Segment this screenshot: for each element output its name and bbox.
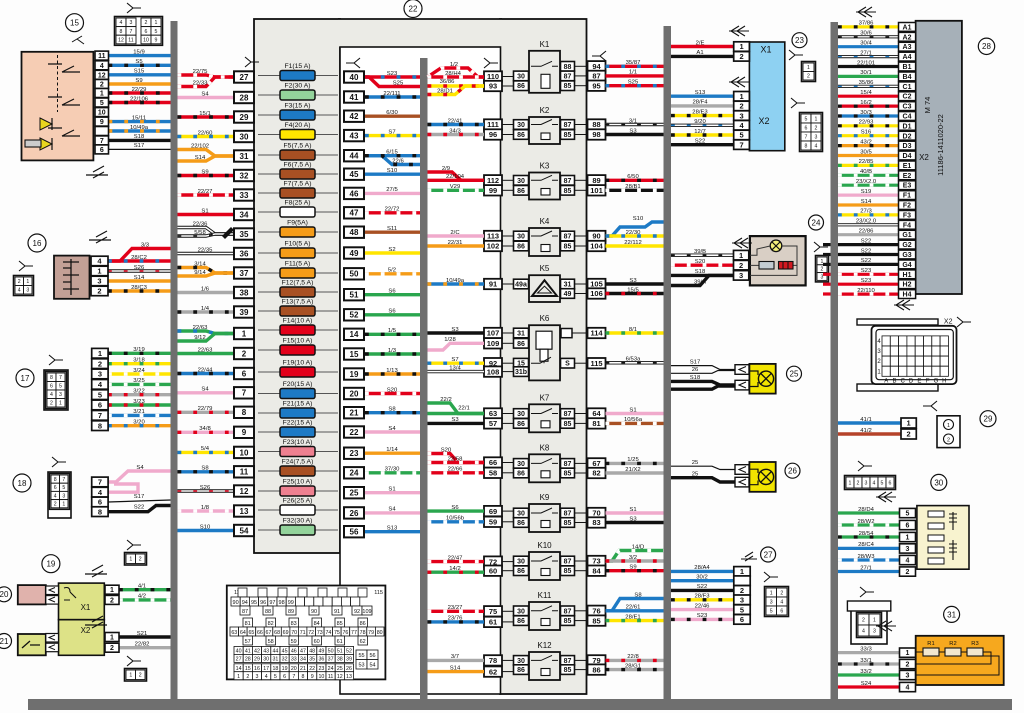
svg-text:69: 69 bbox=[283, 630, 289, 636]
pin 87 of K12 bbox=[561, 656, 575, 666]
wire 22/29 bbox=[109, 91, 171, 94]
svg-text:65: 65 bbox=[248, 630, 254, 636]
pin 86 of K11 bbox=[514, 616, 529, 626]
svg-text:22/110: 22/110 bbox=[857, 288, 875, 294]
svg-text:13: 13 bbox=[346, 674, 352, 680]
branch symbol bbox=[957, 317, 971, 327]
svg-text:84: 84 bbox=[592, 566, 601, 575]
wire 22/35 bbox=[178, 252, 235, 255]
svg-text:9: 9 bbox=[100, 119, 104, 126]
pin 2 of item 15 bbox=[95, 80, 109, 89]
svg-text:R2: R2 bbox=[949, 641, 956, 647]
resistor in item 15 bbox=[25, 140, 41, 147]
pin 28 of block 22 bbox=[234, 92, 254, 103]
svg-text:3/25: 3/25 bbox=[133, 378, 145, 384]
svg-text:91: 91 bbox=[489, 280, 497, 289]
svg-text:87: 87 bbox=[564, 658, 572, 665]
svg-text:104: 104 bbox=[590, 242, 603, 251]
svg-text:90: 90 bbox=[233, 600, 239, 606]
svg-text:15: 15 bbox=[245, 666, 251, 672]
pin 6 of item 17 bbox=[92, 400, 108, 410]
svg-text:H: H bbox=[942, 378, 946, 384]
fuse F10 bbox=[258, 252, 338, 254]
svg-text:S: S bbox=[565, 361, 570, 368]
svg-text:C4: C4 bbox=[903, 114, 912, 121]
fuse F1 bbox=[258, 75, 338, 77]
pin 3 of item 17 bbox=[92, 369, 108, 379]
svg-text:F20(15 A): F20(15 A) bbox=[283, 381, 313, 388]
wire 39/B bbox=[671, 253, 734, 256]
svg-text:F1: F1 bbox=[903, 193, 911, 200]
wire 28/A4 bbox=[671, 570, 734, 573]
arrow glyph bbox=[741, 552, 757, 561]
svg-text:70: 70 bbox=[592, 509, 600, 518]
svg-text:3: 3 bbox=[62, 493, 65, 499]
svg-text:7: 7 bbox=[100, 138, 104, 145]
svg-text:X2: X2 bbox=[758, 116, 769, 126]
svg-text:54: 54 bbox=[240, 526, 249, 535]
svg-text:19: 19 bbox=[350, 370, 359, 379]
wire 22/110 bbox=[838, 293, 899, 296]
svg-text:10: 10 bbox=[98, 110, 106, 117]
svg-text:2: 2 bbox=[740, 52, 744, 61]
svg-text:102: 102 bbox=[487, 242, 500, 251]
svg-text:S19: S19 bbox=[861, 189, 871, 195]
fuse F21 bbox=[258, 412, 338, 414]
svg-text:1: 1 bbox=[98, 349, 102, 358]
svg-text:25: 25 bbox=[790, 370, 799, 379]
svg-text:E: E bbox=[917, 378, 921, 384]
arrow contact bbox=[735, 477, 749, 487]
pin 15 of block 22 bbox=[344, 348, 364, 359]
wire S18 bbox=[671, 274, 734, 277]
svg-text:3: 3 bbox=[865, 480, 868, 486]
svg-text:3/14: 3/14 bbox=[194, 261, 206, 267]
svg-text:2: 2 bbox=[857, 480, 860, 486]
svg-text:8: 8 bbox=[805, 143, 808, 149]
svg-text:29: 29 bbox=[984, 415, 993, 424]
wire 9/12 bbox=[178, 334, 235, 342]
svg-text:B1: B1 bbox=[903, 64, 912, 71]
svg-text:3: 3 bbox=[59, 392, 62, 398]
pin 33 of block 22 bbox=[234, 189, 254, 200]
label 19 circled bbox=[42, 555, 60, 573]
diode symbols in item 15 bbox=[40, 118, 52, 130]
wire 28/B1 bbox=[606, 189, 664, 192]
pin D2 of ECU bbox=[899, 131, 916, 140]
svg-text:7: 7 bbox=[805, 134, 808, 140]
wire 25a bbox=[671, 466, 735, 469]
svg-text:30: 30 bbox=[240, 132, 249, 141]
svg-text:94: 94 bbox=[592, 62, 601, 71]
svg-text:D1: D1 bbox=[903, 123, 912, 130]
pin 2 of item 31 bbox=[900, 659, 916, 668]
svg-text:2: 2 bbox=[947, 438, 950, 444]
fuse F20 bbox=[258, 393, 338, 395]
pin 85 of K3 bbox=[561, 186, 575, 196]
svg-text:1: 1 bbox=[740, 42, 744, 51]
wire S14 bbox=[428, 670, 485, 673]
svg-text:9: 9 bbox=[311, 674, 314, 680]
wire S17 bbox=[109, 148, 171, 150]
wire 1/13 bbox=[365, 372, 420, 375]
svg-text:27/1: 27/1 bbox=[860, 565, 871, 571]
pin 3 of item 24 bbox=[734, 271, 749, 281]
svg-text:H2: H2 bbox=[903, 282, 912, 289]
svg-text:24: 24 bbox=[812, 218, 821, 227]
svg-text:K6: K6 bbox=[540, 314, 550, 323]
block pin 87 bbox=[588, 71, 606, 81]
svg-text:22/112: 22/112 bbox=[624, 240, 642, 246]
svg-text:67: 67 bbox=[266, 630, 272, 636]
wire 22/36 bbox=[178, 228, 235, 235]
wire S4 bbox=[178, 391, 235, 394]
svg-text:8: 8 bbox=[50, 375, 53, 381]
svg-text:66: 66 bbox=[489, 458, 497, 467]
block pin 88 bbox=[588, 119, 606, 129]
svg-text:105: 105 bbox=[590, 280, 603, 289]
pin 13 of block 22 bbox=[234, 505, 254, 516]
svg-text:5: 5 bbox=[62, 485, 65, 491]
svg-text:9/14: 9/14 bbox=[194, 270, 206, 276]
svg-text:D: D bbox=[909, 378, 914, 384]
wire 1/28 bbox=[428, 343, 485, 350]
pin 12 of block 22 bbox=[234, 485, 254, 496]
svg-text:47: 47 bbox=[300, 649, 306, 655]
wire 39/A bbox=[671, 275, 734, 285]
fuse F9 bbox=[258, 231, 338, 233]
svg-text:S13: S13 bbox=[387, 526, 398, 532]
svg-text:7: 7 bbox=[98, 478, 102, 487]
arrow glyph >> bbox=[86, 166, 108, 178]
svg-text:111: 111 bbox=[487, 120, 499, 129]
wire S2 bbox=[365, 251, 420, 254]
svg-text:3: 3 bbox=[256, 674, 259, 680]
svg-text:8: 8 bbox=[54, 477, 57, 483]
svg-text:D4: D4 bbox=[903, 153, 912, 160]
svg-text:93: 93 bbox=[489, 82, 497, 91]
switch-branch glyph bbox=[72, 36, 84, 44]
svg-text:3: 3 bbox=[739, 271, 743, 280]
svg-text:1/5: 1/5 bbox=[388, 328, 397, 334]
svg-text:49: 49 bbox=[350, 249, 359, 258]
svg-text:22/93: 22/93 bbox=[859, 120, 874, 126]
svg-text:1/13: 1/13 bbox=[386, 368, 398, 374]
svg-text:S4: S4 bbox=[388, 507, 396, 513]
wire 2/E bbox=[671, 45, 734, 48]
svg-text:7: 7 bbox=[98, 411, 102, 420]
svg-text:K10: K10 bbox=[537, 541, 552, 550]
block pin 91 bbox=[484, 279, 502, 289]
svg-text:85: 85 bbox=[564, 618, 572, 625]
svg-text:31b: 31b bbox=[515, 369, 527, 376]
svg-text:K11: K11 bbox=[538, 591, 552, 600]
svg-text:8: 8 bbox=[302, 674, 305, 680]
wire 5/58 bbox=[178, 234, 235, 236]
wire 25b bbox=[671, 478, 735, 482]
svg-text:22/63: 22/63 bbox=[198, 347, 213, 353]
block pin 63 bbox=[484, 408, 502, 418]
svg-text:X2: X2 bbox=[81, 626, 91, 635]
svg-text:3: 3 bbox=[26, 288, 29, 294]
svg-text:S6: S6 bbox=[388, 289, 396, 295]
arrow glyph >> bbox=[85, 616, 107, 628]
svg-text:57: 57 bbox=[489, 419, 497, 428]
wire V29 bbox=[428, 189, 485, 192]
wire S4 loop bbox=[108, 484, 138, 492]
svg-text:16/2: 16/2 bbox=[860, 100, 871, 106]
svg-text:53: 53 bbox=[358, 663, 364, 669]
block pin 66 bbox=[484, 457, 502, 467]
svg-text:F2(30 A): F2(30 A) bbox=[284, 83, 310, 90]
wire S10 bbox=[178, 529, 235, 532]
wire S3 bbox=[428, 331, 485, 334]
wire S17 bbox=[108, 500, 171, 502]
svg-text:6: 6 bbox=[242, 369, 247, 378]
pin A2 of ECU bbox=[899, 32, 916, 41]
svg-text:26: 26 bbox=[350, 509, 359, 518]
svg-text:1: 1 bbox=[807, 65, 810, 71]
svg-text:K12: K12 bbox=[537, 641, 552, 650]
svg-text:92: 92 bbox=[354, 609, 360, 615]
svg-text:S18: S18 bbox=[695, 269, 706, 275]
label 21 circled bbox=[0, 634, 12, 649]
svg-text:58: 58 bbox=[268, 639, 274, 645]
svg-text:30: 30 bbox=[517, 178, 525, 185]
pin 30 of K12 bbox=[514, 656, 529, 666]
pin 31 of K6 bbox=[514, 328, 529, 338]
svg-text:2: 2 bbox=[139, 673, 142, 679]
svg-text:S21: S21 bbox=[137, 631, 147, 637]
svg-text:5/2: 5/2 bbox=[388, 268, 396, 274]
svg-text:81: 81 bbox=[592, 419, 600, 428]
pin 2 of item 29 bbox=[901, 429, 916, 439]
svg-text:1: 1 bbox=[100, 91, 104, 98]
svg-text:26: 26 bbox=[346, 666, 352, 672]
svg-text:6: 6 bbox=[98, 498, 102, 507]
pin F3 of ECU bbox=[899, 211, 916, 220]
svg-text:112: 112 bbox=[487, 176, 499, 185]
svg-text:S3: S3 bbox=[629, 278, 637, 284]
label 27 circled bbox=[761, 547, 776, 562]
wire S9 bbox=[606, 569, 664, 572]
svg-text:F10(5 A): F10(5 A) bbox=[284, 241, 310, 248]
block pin 76 bbox=[588, 606, 606, 616]
svg-text:36: 36 bbox=[240, 249, 249, 258]
pin 87 of K10 bbox=[561, 556, 575, 566]
pin 11 of item 15 bbox=[95, 51, 109, 60]
svg-text:37: 37 bbox=[240, 269, 249, 278]
fuse F32 bbox=[258, 529, 338, 531]
pin 3 of X2 bbox=[734, 111, 750, 121]
wire 22/44 bbox=[178, 372, 235, 375]
svg-text:1: 1 bbox=[873, 617, 876, 623]
svg-text:31: 31 bbox=[240, 152, 249, 161]
pin 86 of K6 bbox=[514, 339, 529, 349]
pin 4 of item 31 bbox=[900, 682, 916, 691]
svg-text:2: 2 bbox=[98, 359, 102, 368]
wire 22/58 bbox=[428, 461, 485, 464]
svg-text:86: 86 bbox=[517, 568, 525, 575]
label 23 circled bbox=[792, 33, 807, 48]
block pin 64 bbox=[588, 408, 606, 418]
svg-text:10/49a: 10/49a bbox=[446, 278, 465, 284]
pin 87 of K7 bbox=[561, 409, 575, 419]
svg-text:15/5: 15/5 bbox=[627, 287, 639, 293]
wire 22/63 bbox=[178, 352, 235, 355]
wire 22/104 bbox=[428, 179, 485, 182]
svg-text:K9: K9 bbox=[540, 493, 550, 502]
pin 31b of K6 bbox=[514, 367, 529, 377]
pin 25 of block 22 bbox=[344, 487, 364, 498]
pin 86 of K4 bbox=[514, 241, 529, 251]
pin 20 of block 22 bbox=[344, 388, 364, 399]
svg-text:22: 22 bbox=[309, 666, 315, 672]
label 28 circled bbox=[978, 38, 994, 54]
wire S1 bbox=[178, 213, 235, 216]
svg-text:S8: S8 bbox=[388, 407, 396, 413]
svg-text:3/19: 3/19 bbox=[133, 347, 144, 353]
svg-text:2/C: 2/C bbox=[450, 230, 460, 236]
svg-text:S4: S4 bbox=[388, 426, 396, 432]
svg-text:9/12: 9/12 bbox=[194, 335, 205, 341]
svg-text:34: 34 bbox=[300, 657, 306, 663]
pin 87 of K1 bbox=[561, 71, 575, 81]
svg-text:40: 40 bbox=[236, 649, 242, 655]
branch symbol bbox=[127, 656, 141, 666]
wire 40/B bbox=[838, 174, 899, 177]
arrow glyph bbox=[729, 26, 749, 36]
svg-text:21: 21 bbox=[300, 666, 306, 672]
svg-text:85: 85 bbox=[564, 421, 572, 428]
wire 36/86 bbox=[428, 84, 485, 87]
svg-text:6: 6 bbox=[50, 384, 53, 390]
svg-text:69: 69 bbox=[489, 507, 497, 516]
block pin 113 bbox=[484, 231, 502, 241]
svg-text:S17: S17 bbox=[134, 143, 144, 149]
svg-text:S3: S3 bbox=[451, 327, 459, 333]
svg-text:S4: S4 bbox=[136, 465, 144, 471]
block pin 85 bbox=[588, 615, 606, 625]
wire S9 bbox=[178, 174, 235, 177]
svg-text:F12(7,5 A): F12(7,5 A) bbox=[282, 280, 314, 287]
svg-text:F11(5 A): F11(5 A) bbox=[285, 261, 311, 268]
svg-text:2: 2 bbox=[739, 261, 743, 270]
wire 22/1 bbox=[428, 412, 485, 415]
svg-text:1/28: 1/28 bbox=[444, 337, 456, 343]
svg-text:25: 25 bbox=[337, 666, 343, 672]
svg-text:72: 72 bbox=[308, 630, 314, 636]
branch symbol bbox=[52, 457, 66, 467]
svg-text:51: 51 bbox=[350, 291, 359, 300]
svg-text:22/82: 22/82 bbox=[135, 642, 150, 648]
svg-text:22/36: 22/36 bbox=[193, 221, 208, 227]
svg-text:109: 109 bbox=[362, 609, 371, 615]
wire 15/5 bbox=[606, 292, 664, 295]
pin 85 of K12 bbox=[561, 665, 575, 675]
svg-text:56: 56 bbox=[369, 653, 375, 659]
svg-text:75: 75 bbox=[334, 630, 340, 636]
fuse F23 bbox=[258, 451, 338, 453]
svg-text:12/7: 12/7 bbox=[694, 129, 705, 135]
block pin 101 bbox=[588, 185, 606, 195]
svg-text:56: 56 bbox=[350, 528, 359, 537]
svg-text:15/9: 15/9 bbox=[133, 49, 144, 55]
wire 22/33 bbox=[178, 77, 235, 87]
connector icon 3-pin bbox=[816, 256, 829, 282]
wire 1/5 bbox=[365, 333, 420, 336]
svg-text:22/79: 22/79 bbox=[198, 406, 213, 412]
pin C4 of ECU bbox=[899, 112, 916, 121]
svg-text:36/86: 36/86 bbox=[440, 79, 455, 85]
svg-text:9: 9 bbox=[155, 37, 158, 43]
wire 6/50 bbox=[606, 179, 664, 182]
svg-text:87: 87 bbox=[242, 609, 248, 615]
svg-text:87: 87 bbox=[564, 234, 572, 241]
pin symbol of K6 bbox=[561, 329, 572, 338]
svg-text:31: 31 bbox=[272, 657, 278, 663]
svg-text:4: 4 bbox=[862, 628, 865, 634]
wire 28/D1 bbox=[428, 86, 485, 95]
pin 7 of item 18 bbox=[92, 477, 108, 487]
svg-text:86: 86 bbox=[517, 471, 525, 478]
svg-text:4: 4 bbox=[120, 20, 123, 26]
svg-text:19: 19 bbox=[282, 666, 288, 672]
svg-text:67: 67 bbox=[592, 459, 600, 468]
pin 45 of block 22 bbox=[344, 169, 364, 180]
svg-text:1/4: 1/4 bbox=[201, 306, 210, 312]
svg-text:51: 51 bbox=[337, 649, 343, 655]
pin E2 of ECU bbox=[899, 171, 916, 180]
svg-text:2: 2 bbox=[97, 287, 101, 296]
svg-text:86: 86 bbox=[517, 83, 525, 90]
svg-text:108: 108 bbox=[487, 367, 500, 376]
svg-text:S1: S1 bbox=[388, 487, 395, 493]
wire 1/25 bbox=[606, 462, 664, 465]
svg-text:61: 61 bbox=[337, 639, 343, 645]
block pin 70 bbox=[588, 508, 606, 518]
svg-text:84: 84 bbox=[314, 621, 320, 627]
pin 88 of K1 bbox=[561, 62, 575, 72]
svg-text:39: 39 bbox=[240, 308, 249, 317]
svg-text:S23: S23 bbox=[861, 278, 872, 284]
svg-text:11: 11 bbox=[128, 37, 133, 43]
pin 4 of item 17 bbox=[92, 380, 108, 390]
pin 1 of block 22 bbox=[234, 328, 254, 339]
label 15 circled bbox=[66, 14, 84, 32]
svg-text:20: 20 bbox=[291, 666, 297, 672]
pin 6 of item 30 bbox=[900, 520, 916, 529]
arrow glyph bbox=[856, 7, 876, 17]
wire 15/11 bbox=[109, 120, 171, 123]
svg-text:17: 17 bbox=[263, 666, 269, 672]
relay K7 bbox=[529, 404, 560, 432]
pin 14 of block 22 bbox=[344, 329, 364, 340]
svg-text:S26: S26 bbox=[134, 265, 145, 271]
svg-text:52: 52 bbox=[346, 649, 352, 655]
pin 35 of block 22 bbox=[234, 228, 254, 239]
svg-text:1: 1 bbox=[110, 635, 114, 642]
wire 27/3 bbox=[838, 213, 899, 216]
svg-text:22/33: 22/33 bbox=[193, 80, 208, 86]
svg-text:23: 23 bbox=[350, 449, 359, 458]
pin 1 of item 29 bbox=[901, 418, 916, 428]
svg-text:33: 33 bbox=[291, 657, 297, 663]
pin 2 of X1 bbox=[105, 595, 119, 604]
svg-text:F14(10 A): F14(10 A) bbox=[283, 318, 313, 325]
svg-text:28/E1: 28/E1 bbox=[625, 614, 640, 620]
pin 86 of K12 bbox=[514, 665, 529, 675]
